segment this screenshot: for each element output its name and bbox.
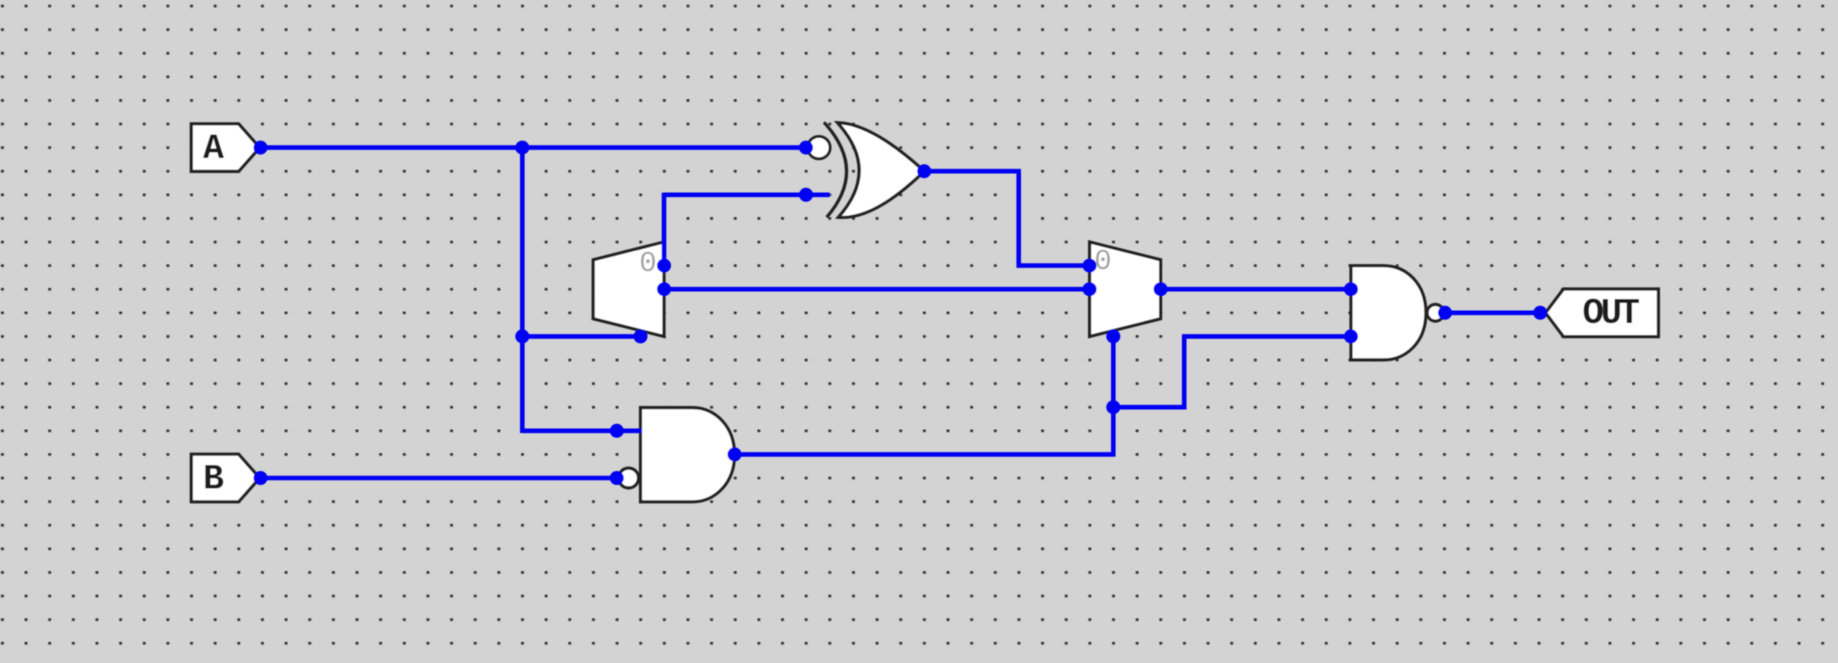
pin dot NAND output xyxy=(1438,306,1452,320)
wire to MUX select xyxy=(1111,336,1116,454)
NAND gate U3 xyxy=(1351,266,1426,360)
wire MUX out to NAND input 1 xyxy=(1161,287,1351,292)
XOR input 1 negation bubble xyxy=(808,136,830,158)
wire DEMUX out0 vertical xyxy=(662,193,667,266)
junction select branch xyxy=(515,329,529,343)
demultiplexer DEMUX1 xyxy=(593,242,664,336)
wire B to AND input 2 xyxy=(261,476,617,481)
NAND output bubble xyxy=(1427,305,1444,322)
wire to NAND input 2 xyxy=(1182,334,1351,339)
wire XOR input 2 stub xyxy=(806,193,830,198)
pin dot B output xyxy=(254,471,268,485)
pin dot DEMUX select xyxy=(634,329,648,343)
wire A to XOR input 1 xyxy=(261,145,807,150)
pin dot MUX input 2 xyxy=(1083,282,1097,296)
XOR gate U1 xyxy=(824,122,924,217)
pin dot MUX select xyxy=(1106,329,1120,343)
wire branch vertical xyxy=(1182,336,1187,409)
wire to MUX input 1 xyxy=(1017,263,1090,268)
svg-text:0: 0 xyxy=(639,247,656,280)
wire junction branch right xyxy=(1113,405,1186,410)
AND input 2 negation bubble xyxy=(619,468,639,488)
wire to AND input 1 xyxy=(522,428,641,433)
pin dot NAND input 2 xyxy=(1344,329,1358,343)
wire DEMUX out0 to XOR input 2 xyxy=(664,193,806,198)
junction node A xyxy=(515,141,529,155)
svg-text:0: 0 xyxy=(1094,245,1111,278)
pin dot XOR input 2 xyxy=(799,188,813,202)
pin dot XOR output xyxy=(917,164,931,178)
pin dot MUX output xyxy=(1154,282,1168,296)
output pin OUT xyxy=(1546,289,1659,337)
pin dot AND input 2 xyxy=(610,471,624,485)
input pin B xyxy=(191,454,259,502)
pin dot A output xyxy=(254,141,268,155)
wire DEMUX out1 to MUX input 2 xyxy=(664,287,1090,292)
pin dot NAND input 1 xyxy=(1344,282,1358,296)
junction NAND-out branch xyxy=(1106,400,1120,414)
svg-text:B: B xyxy=(203,459,224,499)
svg-text:OUT: OUT xyxy=(1582,293,1639,334)
pin dot OUT input xyxy=(1533,306,1547,320)
wire vertical from node A xyxy=(520,145,525,433)
wire XOR out vertical xyxy=(1016,171,1021,265)
wire to DEMUX select xyxy=(522,334,640,339)
pin dot AND output xyxy=(728,447,742,461)
pin dot DEMUX out1 xyxy=(657,282,671,296)
pin dot XOR input 1 xyxy=(799,141,813,155)
wire XOR out horizontal xyxy=(924,169,1021,174)
input pin A xyxy=(191,124,259,172)
wire NAND out to OUT pin xyxy=(1445,310,1540,315)
wire AND out horizontal xyxy=(735,452,1116,457)
AND gate U2 xyxy=(641,408,735,502)
multiplexer MUX1 xyxy=(1090,242,1161,336)
svg-text:A: A xyxy=(203,129,224,169)
pin dot MUX input 1 xyxy=(1083,259,1097,273)
pin dot DEMUX out0 xyxy=(657,259,671,273)
pin dot AND input 1 xyxy=(610,424,624,438)
